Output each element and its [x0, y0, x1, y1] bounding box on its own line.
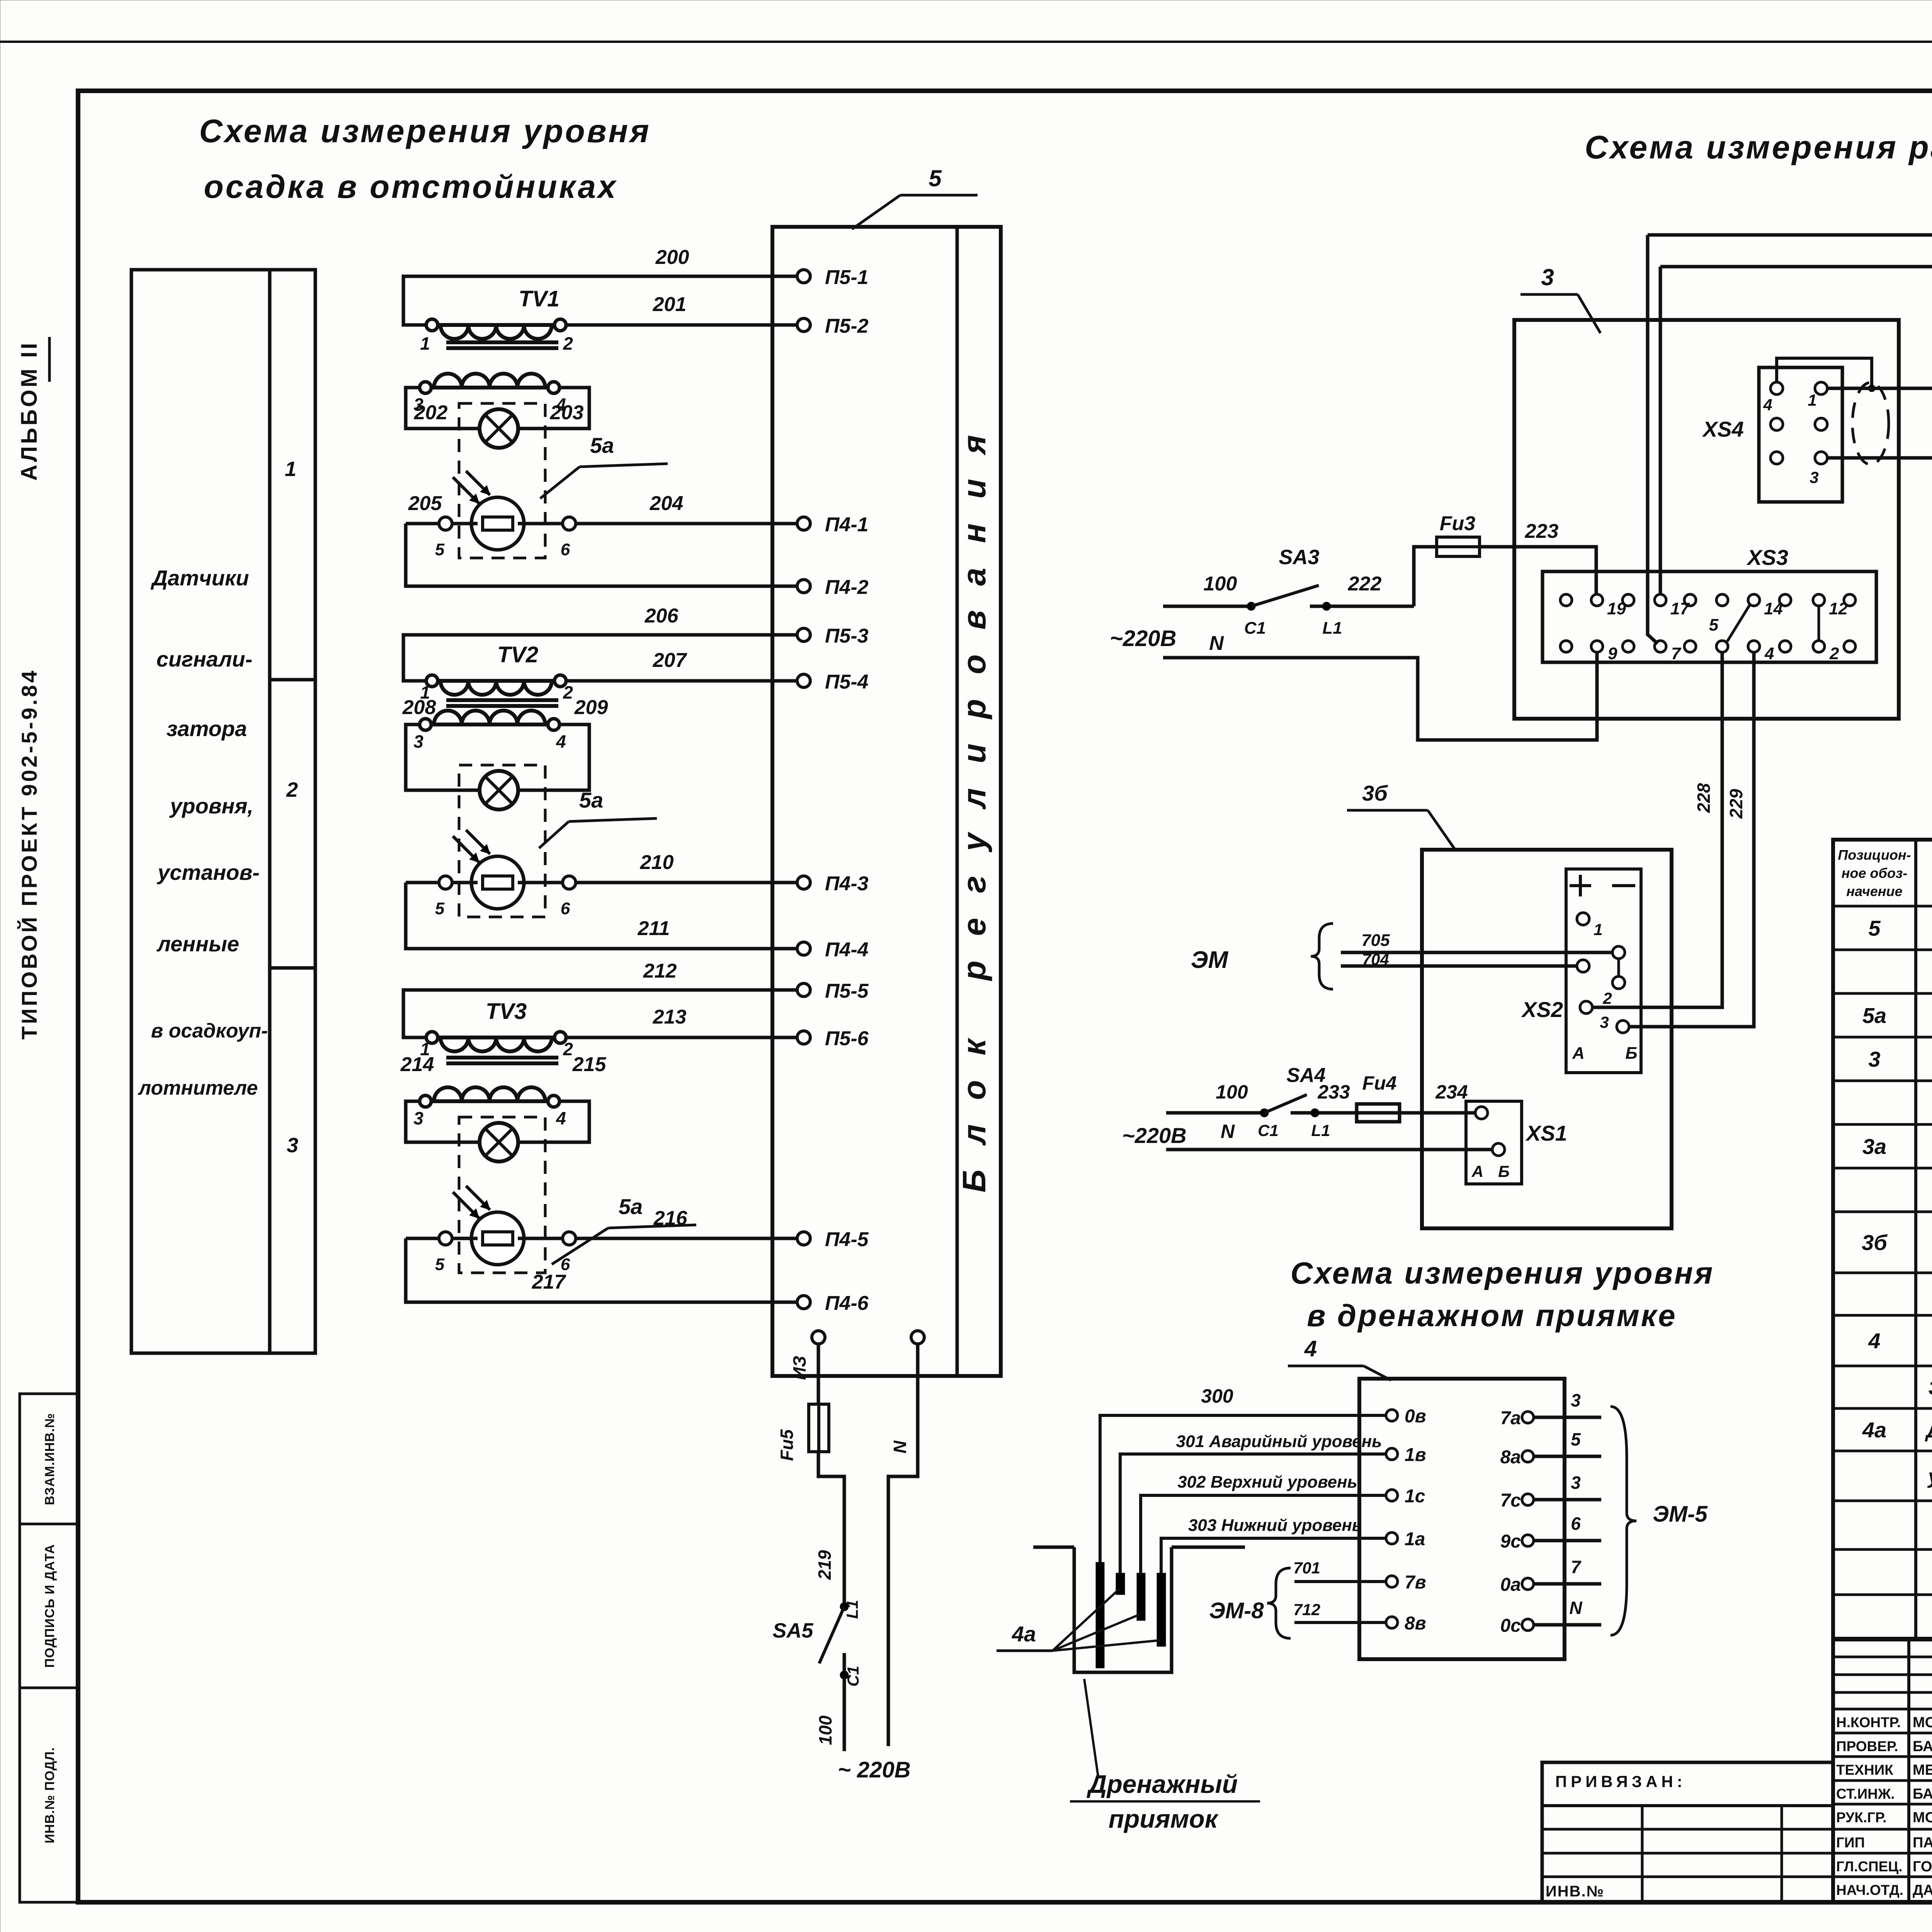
- title: level measurement in drainage pit: [1291, 1256, 1714, 1333]
- wire N (SA5 branch): [888, 1344, 918, 1746]
- block 4 terminal 1а: [1386, 1529, 1425, 1549]
- svg-text:203: 203: [550, 401, 584, 424]
- block 4 terminal 0в: [1386, 1406, 1426, 1427]
- svg-text:0с: 0с: [1500, 1616, 1521, 1636]
- terminal П5-1: [797, 266, 869, 289]
- terminal П4-5: [797, 1228, 869, 1251]
- svg-text:N: N: [890, 1440, 910, 1454]
- svg-text:А: А: [1471, 1162, 1483, 1180]
- terminal П5-5: [797, 980, 869, 1002]
- table row 3 flowmeter: [1868, 1047, 1932, 1071]
- table row 4 regulator: [1868, 1329, 1932, 1353]
- return wire (module 1 bottom): [406, 524, 797, 586]
- wire 208 (module 2 secondary loop left): [402, 696, 481, 790]
- wire 204 (module 1 to П4): [452, 492, 797, 524]
- wire N (SA4): [1166, 1148, 1492, 1151]
- svg-text:1а: 1а: [1405, 1529, 1425, 1549]
- wire 225: [1660, 235, 1932, 594]
- svg-text:1: 1: [1808, 391, 1816, 409]
- svg-text:1: 1: [1594, 920, 1602, 939]
- svg-text:ТИПОВОЙ ПРОЕКТ 902-5-9.84: ТИПОВОЙ ПРОЕКТ 902-5-9.84: [17, 668, 41, 1040]
- sidebar box Inv.No podl: [20, 1688, 78, 1902]
- wire N to XS3 pin 9: [1163, 653, 1597, 740]
- svg-text:МОСЕЕНКО: МОСЕЕНКО: [1913, 1810, 1932, 1826]
- terminal 5 of sensor (module 1): [435, 517, 452, 559]
- svg-text:5: 5: [435, 899, 445, 918]
- supply ~220V (SA4): [1122, 1121, 1235, 1148]
- svg-text:4: 4: [1763, 396, 1772, 414]
- terminal П4-6: [797, 1292, 869, 1315]
- svg-text:4: 4: [1764, 644, 1774, 663]
- block 4 output 7с wire 3: [1500, 1473, 1601, 1511]
- svg-text:XS1: XS1: [1525, 1121, 1567, 1145]
- svg-text:3: 3: [413, 731, 423, 752]
- drainage pit outline: [1033, 1547, 1245, 1672]
- svg-text:7: 7: [1671, 644, 1682, 663]
- svg-text:5: 5: [1571, 1429, 1581, 1449]
- svg-text:9с: 9с: [1500, 1531, 1521, 1552]
- wire 701: [1293, 1559, 1386, 1582]
- sensor box section dividers and numbers: [270, 457, 315, 1157]
- wire 207 (module 2 primary): [566, 649, 797, 681]
- svg-text:300: 300: [1201, 1385, 1233, 1407]
- svg-text:П5-3: П5-3: [825, 625, 869, 647]
- milliammeter block 3b: [1422, 850, 1672, 1228]
- svg-text:П5-5: П5-5: [825, 980, 869, 1002]
- svg-text:Блок регулирования: Блок регулирования: [956, 410, 992, 1192]
- svg-text:0а: 0а: [1500, 1575, 1521, 1595]
- svg-text:ВЗАМ.ИНВ.№: ВЗАМ.ИНВ.№: [43, 1413, 57, 1505]
- title: level measurement in settling tanks: [199, 113, 651, 205]
- terminal 6 of sensor (module 2): [561, 876, 576, 918]
- table row 3a transducer: [1862, 1134, 1932, 1159]
- block 4 output 7а wire 3: [1500, 1390, 1601, 1429]
- svg-text:5: 5: [435, 540, 445, 559]
- terminal П4-4: [797, 939, 869, 961]
- svg-text:TV3: TV3: [486, 999, 527, 1024]
- svg-text:217: 217: [532, 1271, 566, 1293]
- svg-text:TV2: TV2: [497, 642, 538, 667]
- fuse Fu3: [1437, 512, 1480, 556]
- terminal П5-2: [797, 315, 869, 337]
- callout 5a (module 1): [540, 433, 668, 498]
- svg-text:216: 216: [653, 1207, 688, 1230]
- connector XS2: [1521, 869, 1641, 1073]
- terminal П4-3: [797, 872, 869, 895]
- svg-text:ИНВ.№: ИНВ.№: [1546, 1883, 1604, 1900]
- terminal П5-4: [797, 671, 869, 693]
- svg-text:П4-2: П4-2: [825, 576, 869, 599]
- terminal 5 of sensor (module 2): [435, 876, 452, 918]
- return wire (module 2 bottom): [406, 883, 797, 949]
- block 4 terminal 8в: [1386, 1613, 1426, 1634]
- svg-text:П4-1: П4-1: [825, 514, 869, 536]
- wire 201 (module 1 primary): [566, 293, 797, 325]
- svg-text:4: 4: [556, 731, 566, 752]
- svg-text:3: 3: [413, 1108, 423, 1128]
- svg-text:НАЧ.ОТД.: НАЧ.ОТД.: [1836, 1882, 1903, 1898]
- wire 215 (module 3 secondary loop right): [517, 1053, 606, 1142]
- svg-text:8а: 8а: [1500, 1447, 1521, 1468]
- svg-text:233: 233: [1317, 1081, 1350, 1103]
- wire 302 upper level: [1141, 1473, 1386, 1573]
- wire 301 emergency level: [1120, 1432, 1386, 1573]
- svg-text:ленные: ленные: [156, 932, 239, 956]
- wire 303 lower level: [1161, 1516, 1386, 1573]
- wire 712: [1293, 1600, 1386, 1622]
- svg-text:3: 3: [1868, 1047, 1880, 1071]
- wire 704: [1341, 950, 1577, 968]
- callout 5: [852, 165, 978, 229]
- svg-text:затора: затора: [167, 716, 247, 741]
- terminal 5 of sensor (module 3): [435, 1232, 452, 1274]
- svg-text:ПРОВЕР.: ПРОВЕР.: [1836, 1738, 1898, 1754]
- label ЭМ with brace: [1191, 923, 1333, 989]
- svg-text:205: 205: [408, 492, 442, 515]
- svg-text:223: 223: [1525, 520, 1559, 543]
- probe electrode upper: [1137, 1573, 1145, 1621]
- svg-text:2: 2: [286, 778, 298, 801]
- svg-text:П5-4: П5-4: [825, 671, 869, 693]
- svg-text:L1: L1: [1322, 619, 1342, 638]
- supply ~220V (SA3): [1110, 626, 1224, 655]
- svg-text:N: N: [1569, 1598, 1582, 1618]
- svg-text:701: 701: [1293, 1559, 1320, 1577]
- connector XS1: [1466, 1101, 1567, 1184]
- wire 226: [1827, 388, 1932, 659]
- svg-text:705: 705: [1361, 931, 1390, 950]
- svg-text:209: 209: [574, 696, 608, 719]
- block 4 terminal 7в: [1386, 1572, 1426, 1593]
- wire 705: [1341, 931, 1612, 952]
- svg-text:~ 220В: ~ 220В: [838, 1757, 911, 1782]
- sensor 5a dashed box (module 1): [459, 403, 545, 558]
- svg-text:5а: 5а: [1862, 1003, 1886, 1028]
- svg-text:МОСЕЕНКО: МОСЕЕНКО: [1913, 1714, 1932, 1731]
- lamp HL3: [480, 1123, 518, 1162]
- svg-text:214: 214: [400, 1053, 434, 1076]
- parts table grid: [1833, 840, 1932, 1639]
- svg-text:3: 3: [1541, 264, 1554, 290]
- svg-text:L1: L1: [843, 1600, 861, 1619]
- svg-text:3: 3: [287, 1134, 298, 1157]
- wire 234: [1400, 1081, 1476, 1113]
- svg-text:5: 5: [435, 1255, 445, 1274]
- wire to fuse Fu3: [1414, 547, 1437, 606]
- block 4 output 9с wire 6: [1500, 1514, 1601, 1552]
- svg-text:1в: 1в: [1405, 1445, 1426, 1465]
- svg-text:7: 7: [1571, 1557, 1582, 1577]
- fuse Fu5: [777, 1404, 829, 1461]
- svg-text:3: 3: [1810, 468, 1818, 486]
- svg-text:СТ.ИНЖ.: СТ.ИНЖ.: [1836, 1786, 1895, 1802]
- block 5 bottom terminal ИЗ: [789, 1331, 825, 1380]
- svg-text:229: 229: [1726, 789, 1746, 819]
- svg-text:L1: L1: [1311, 1121, 1330, 1139]
- svg-text:7а: 7а: [1500, 1408, 1521, 1429]
- svg-text:303 Нижний уровень: 303 Нижний уровень: [1188, 1516, 1362, 1535]
- svg-text:Fu4: Fu4: [1362, 1072, 1397, 1094]
- terminal П4-2: [797, 576, 869, 599]
- lamp HL2: [480, 771, 518, 810]
- probe electrode common: [1096, 1562, 1104, 1668]
- wire 300: [1100, 1385, 1386, 1562]
- svg-text:207: 207: [653, 649, 687, 672]
- svg-text:XS4: XS4: [1702, 417, 1744, 441]
- switch SA4: [1258, 1064, 1326, 1139]
- svg-text:5а: 5а: [619, 1194, 643, 1219]
- callout 4: [1288, 1336, 1391, 1380]
- wire 223: [1480, 520, 1596, 594]
- wire segment left of sensor (module 2): [406, 881, 439, 884]
- svg-text:14: 14: [1764, 599, 1783, 618]
- svg-text:ГОЛЬЦМАН: ГОЛЬЦМАН: [1913, 1859, 1932, 1875]
- switch SA3: [1244, 546, 1320, 638]
- svg-text:204: 204: [650, 492, 684, 515]
- wire 224: [1648, 203, 1932, 644]
- svg-text:5: 5: [1709, 616, 1719, 634]
- svg-text:712: 712: [1293, 1600, 1320, 1619]
- svg-text:2: 2: [563, 333, 573, 354]
- transformer TV1: [413, 286, 573, 415]
- table row ersu spec: [1928, 1376, 1932, 1400]
- svg-text:АЛЬБОМ II: АЛЬБОМ II: [17, 341, 42, 481]
- svg-text:219: 219: [815, 1550, 835, 1580]
- svg-text:C1: C1: [844, 1666, 862, 1687]
- lamp HL1: [480, 409, 518, 448]
- wire 216 (module 3 to П4): [452, 1207, 797, 1238]
- sidebar box Podpis i data: [20, 1524, 78, 1688]
- wire 214 (module 3 secondary loop left): [400, 1053, 481, 1142]
- wire 210 (module 2 to П4): [452, 851, 797, 883]
- sheet top edge line: [0, 41, 1932, 43]
- terminal П5-6: [797, 1027, 869, 1050]
- svg-text:2: 2: [1829, 644, 1839, 663]
- svg-text:Б: Б: [1625, 1044, 1637, 1063]
- terminal 6 of sensor (module 1): [561, 517, 576, 559]
- svg-text:в дренажном приямке: в дренажном приямке: [1307, 1298, 1677, 1333]
- svg-text:7с: 7с: [1500, 1490, 1521, 1511]
- svg-text:П5-2: П5-2: [825, 315, 869, 337]
- svg-text:начение: начение: [1846, 883, 1902, 899]
- callout 5a (module 2): [539, 788, 657, 848]
- XS4 jumper pin4 to pin1: [1777, 358, 1875, 392]
- transformer TV3: [413, 999, 573, 1128]
- svg-text:Схема измерения расхода оса: Схема измерения расхода осадка: [1585, 129, 1932, 165]
- sensor 5a dashed box (module 2): [459, 765, 545, 917]
- svg-text:в осадкоуп-: в осадкоуп-: [151, 1020, 268, 1042]
- wire 203 (module 1 secondary loop right): [517, 388, 589, 429]
- table row 4a sensors: [1862, 1418, 1932, 1442]
- callout 3: [1520, 264, 1600, 333]
- wire 202 (module 1 secondary loop left): [406, 388, 481, 429]
- svg-text:БАКШЕЕВА: БАКШЕЕВА: [1913, 1738, 1932, 1755]
- svg-text:ЭМ-5: ЭМ-5: [1653, 1502, 1708, 1527]
- svg-text:П4-4: П4-4: [825, 939, 869, 961]
- privyazan block: [1542, 1762, 1833, 1902]
- svg-text:ДАНИЛОВ: ДАНИЛОВ: [1913, 1882, 1932, 1898]
- svg-text:212: 212: [643, 960, 677, 982]
- svg-text:215: 215: [572, 1053, 607, 1076]
- wire 209 (module 2 secondary loop right): [517, 696, 608, 790]
- signature column labels and names: [1836, 1714, 1932, 1898]
- svg-text:ГЛ.СПЕЦ.: ГЛ.СПЕЦ.: [1836, 1859, 1903, 1874]
- wire 205 (module 1 left of sensor): [406, 492, 442, 524]
- wire 212 (module 3 top): [403, 960, 797, 1037]
- svg-text:4а: 4а: [1862, 1418, 1886, 1442]
- block 4 terminal 1с: [1386, 1486, 1425, 1507]
- transformer TV2: [413, 642, 573, 752]
- table row 5a sensor: [1862, 1003, 1932, 1028]
- table row 5 device: [1868, 916, 1932, 941]
- svg-text:5а: 5а: [590, 433, 614, 457]
- svg-text:2: 2: [563, 682, 573, 702]
- control unit block 5 (Blok regulirovaniya): [772, 227, 1001, 1376]
- svg-text:12: 12: [1829, 599, 1848, 618]
- svg-text:П4-6: П4-6: [825, 1292, 869, 1315]
- wire 100 (SA4): [1166, 1081, 1264, 1113]
- photoresistor sensor (module 3): [453, 1186, 524, 1265]
- parts table header: [1838, 847, 1932, 899]
- table row 3b milliammeter: [1862, 1230, 1932, 1255]
- terminal П4-1: [797, 514, 869, 536]
- svg-text:РУК.ГР.: РУК.ГР.: [1836, 1810, 1886, 1825]
- XS3 jumper pin12 to pin2: [1818, 606, 1820, 641]
- svg-text:9: 9: [1608, 644, 1617, 663]
- svg-text:3б: 3б: [1862, 1230, 1888, 1255]
- photoresistor sensor (module 1): [453, 471, 524, 550]
- svg-text:4: 4: [1304, 1336, 1317, 1361]
- svg-text:Дренажный: Дренажный: [1087, 1770, 1238, 1798]
- sensor 5a dashed box (module 3): [459, 1117, 545, 1273]
- svg-text:МЕНОВЩИКОВА: МЕНОВЩИКОВА: [1913, 1762, 1932, 1778]
- connector XS4: [1702, 367, 1842, 502]
- wire 228: [1592, 653, 1722, 1007]
- fuse Fu4: [1357, 1072, 1400, 1122]
- svg-text:4а: 4а: [1012, 1622, 1036, 1646]
- svg-text:3: 3: [1600, 1013, 1609, 1031]
- callout 3b: [1347, 781, 1456, 851]
- svg-text:ЭМ: ЭМ: [1191, 947, 1229, 973]
- block 4 output 0с wire N: [1500, 1598, 1601, 1636]
- svg-text:ЭМ-8: ЭМ-8: [1209, 1598, 1264, 1623]
- svg-text:3б: 3б: [1362, 781, 1388, 805]
- svg-text:100: 100: [1216, 1081, 1248, 1103]
- svg-text:704: 704: [1362, 950, 1389, 968]
- svg-text:C1: C1: [1244, 619, 1266, 638]
- svg-text:201: 201: [653, 293, 687, 316]
- svg-text:ГИП: ГИП: [1836, 1835, 1865, 1850]
- wire 229: [1629, 653, 1754, 1027]
- wire 227: [1827, 458, 1932, 698]
- svg-text:ТЕХНИК: ТЕХНИК: [1836, 1762, 1893, 1778]
- svg-text:ПАВЛОВА: ПАВЛОВА: [1913, 1835, 1932, 1851]
- svg-text:4: 4: [556, 1108, 566, 1128]
- svg-text:осадка в отстойниках: осадка в отстойниках: [204, 168, 617, 205]
- svg-text:5: 5: [929, 165, 942, 191]
- wire segment left of sensor (module 3): [406, 1237, 439, 1240]
- svg-text:П5-1: П5-1: [825, 266, 869, 289]
- svg-text:208: 208: [402, 696, 436, 719]
- svg-text:1: 1: [285, 457, 296, 481]
- svg-text:SA5: SA5: [772, 1619, 813, 1642]
- return wire (module 3 bottom): [406, 1238, 797, 1302]
- table row ersu drawing no: [1927, 1465, 1932, 1488]
- svg-text:3: 3: [1571, 1473, 1581, 1493]
- svg-text:17: 17: [1670, 599, 1690, 618]
- svg-text:Н.КОНТР.: Н.КОНТР.: [1836, 1714, 1901, 1730]
- svg-text:Б: Б: [1498, 1162, 1510, 1180]
- svg-text:228: 228: [1694, 783, 1714, 813]
- brace ЭМ-5: [1611, 1406, 1708, 1635]
- svg-text:5а: 5а: [579, 788, 603, 812]
- svg-text:БАКШЕЕВА: БАКШЕЕВА: [1913, 1786, 1932, 1802]
- svg-text:Fu3: Fu3: [1440, 512, 1476, 535]
- svg-text:3: 3: [1571, 1390, 1581, 1410]
- svg-text:ное обоз-: ное обоз-: [1842, 865, 1907, 881]
- svg-text:Fu5: Fu5: [777, 1429, 797, 1461]
- svg-text:П5-6: П5-6: [825, 1027, 869, 1050]
- flowmeter block 3 (IR-51): [1514, 320, 1899, 719]
- svg-text:П4-5: П4-5: [825, 1228, 869, 1251]
- svg-text:Датчики: Датчики: [151, 566, 249, 590]
- probe electrode lower: [1157, 1573, 1166, 1646]
- block 4 output 8а wire 5: [1500, 1429, 1601, 1468]
- svg-text:Схема измерения уровня: Схема измерения уровня: [199, 113, 651, 149]
- svg-text:ПОДПИСЬ И ДАТА: ПОДПИСЬ И ДАТА: [43, 1544, 57, 1668]
- block 4 terminal 1в: [1386, 1445, 1426, 1465]
- svg-text:100: 100: [1204, 573, 1237, 595]
- svg-text:N: N: [1209, 632, 1224, 655]
- svg-text:лотнителе: лотнителе: [138, 1077, 258, 1099]
- callout 5a (module 3): [552, 1194, 696, 1264]
- svg-text:213: 213: [653, 1006, 687, 1028]
- wire 222: [1310, 573, 1414, 638]
- svg-text:211: 211: [638, 917, 670, 940]
- wire 219: [815, 1452, 844, 1607]
- svg-text:SA3: SA3: [1279, 546, 1319, 569]
- sidebar box Vzam.inv.No: [20, 1394, 78, 1524]
- svg-text:6: 6: [561, 540, 570, 559]
- wire 200 (module 1 top): [403, 246, 797, 325]
- cable marker at XS4: [1852, 383, 1889, 464]
- svg-text:1: 1: [420, 333, 430, 354]
- title block grid: [1833, 1639, 1932, 1902]
- svg-text:222: 222: [1348, 573, 1382, 595]
- block 4 output 0а wire 7: [1500, 1557, 1601, 1595]
- label drainage pit: [1070, 1679, 1260, 1833]
- probe electrode emergency: [1116, 1573, 1125, 1595]
- terminal П5-3: [797, 625, 869, 647]
- svg-text:19: 19: [1607, 599, 1626, 618]
- svg-text:сигнали-: сигнали-: [156, 647, 253, 671]
- wire 100 (SA5 branch): [815, 1653, 862, 1751]
- svg-text:301 Аварийный уровень: 301 Аварийный уровень: [1176, 1432, 1382, 1451]
- svg-text:ИЗ: ИЗ: [789, 1356, 810, 1380]
- svg-text:5: 5: [1868, 916, 1881, 940]
- svg-text:210: 210: [640, 851, 674, 874]
- sensor description box: [131, 270, 315, 1353]
- svg-text:~220В: ~220В: [1122, 1123, 1187, 1148]
- wire from ИЗ terminal to fuse Fu5: [817, 1344, 820, 1404]
- photoresistor sensor (module 2): [453, 830, 524, 909]
- svg-text:1с: 1с: [1405, 1486, 1425, 1507]
- terminal 6 of sensor (module 3): [561, 1232, 576, 1274]
- svg-text:приямок: приямок: [1109, 1804, 1219, 1833]
- svg-text:А: А: [1572, 1044, 1585, 1063]
- svg-text:установ-: установ-: [156, 860, 260, 884]
- svg-text:6: 6: [1571, 1514, 1581, 1534]
